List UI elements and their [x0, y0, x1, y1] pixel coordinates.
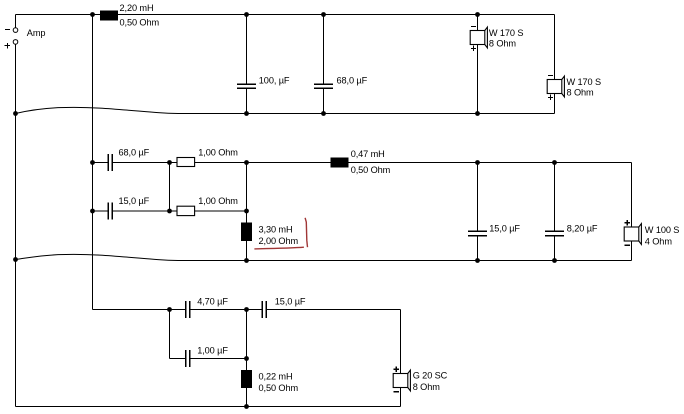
svg-text:4,70 µF: 4,70 µF	[197, 297, 228, 307]
red annotation underline	[254, 247, 304, 249]
wire leg to C9	[170, 358, 186, 360]
wire node to C8	[247, 309, 263, 311]
node junction top rail x=246	[244, 12, 249, 17]
node junction x=92 row2	[90, 209, 95, 214]
node junction mid bottom x=554	[552, 258, 557, 263]
wire top rail from amp to top-right corner	[16, 14, 555, 16]
wire C5 lower stub	[477, 236, 479, 261]
label L3 value	[259, 224, 293, 234]
svg-text:8 Ohm: 8 Ohm	[413, 382, 441, 392]
wire speaker LS3 upper lead	[631, 163, 633, 228]
amp plus sign	[5, 43, 10, 48]
label LS4 name	[413, 371, 448, 381]
node junction woofer rail x=477	[475, 111, 480, 116]
inductor L2 0.47mH body	[331, 158, 349, 168]
capacitor C7 4.7uF plates	[186, 301, 190, 318]
label LS2 name	[567, 77, 602, 87]
svg-text:15,0 µF: 15,0 µF	[119, 196, 150, 206]
wire C2 lower stub	[323, 88, 325, 113]
node junction x=246 mid bottom rail	[244, 258, 249, 263]
inductor L3 3.30mH body	[241, 223, 252, 242]
wire C1 upper stub	[246, 15, 248, 85]
wire row1 node to R1	[170, 162, 178, 164]
capacitor C8 15uF plates	[262, 301, 266, 318]
wire amp plus lead down left side	[15, 44, 17, 406]
label C5 value	[489, 223, 520, 233]
svg-text:Amp: Amp	[27, 28, 46, 38]
wire L3 upper lead	[246, 211, 248, 223]
svg-text:15,0 µF: 15,0 µF	[275, 297, 306, 307]
svg-text:0,50 Ohm: 0,50 Ohm	[120, 17, 160, 27]
red annotation check stroke	[305, 218, 307, 247]
svg-text:100, µF: 100, µF	[259, 76, 290, 86]
label L2 resistance	[351, 165, 391, 175]
node junction x=246 row2	[244, 209, 249, 214]
wire speaker LS1 lower lead	[477, 45, 479, 114]
svg-text:4 Ohm: 4 Ohm	[645, 236, 673, 246]
node junction x=92 row1	[90, 160, 95, 165]
label LS1 name	[489, 28, 524, 38]
wire C8 to tweeter corner	[266, 309, 401, 311]
label C8 value	[275, 297, 306, 307]
svg-text:0,47 mH: 0,47 mH	[351, 149, 385, 159]
node junction top rail x=324	[321, 12, 326, 17]
wire midrange rail row1 to corner	[247, 162, 632, 164]
label L4 resistance	[259, 383, 299, 393]
svg-text:W 100 S: W 100 S	[645, 225, 680, 235]
svg-text:0,50 Ohm: 0,50 Ohm	[351, 165, 391, 175]
wire C6 upper stub	[554, 163, 556, 232]
amp label	[27, 28, 46, 38]
label LS3 name	[645, 225, 680, 235]
wire vertical x=246 to L4	[246, 310, 248, 371]
label L1 value	[120, 3, 154, 13]
label C9 value	[197, 345, 228, 355]
wire C5 upper stub	[477, 163, 479, 232]
wire row2 R2 to node	[195, 210, 247, 212]
label R1 value	[198, 147, 238, 157]
wire curvy return lower (amp plus to midrange bottom rail)	[16, 254, 247, 260]
wire speaker LS2 upper lead	[554, 15, 556, 80]
amp terminal plus circle	[13, 40, 18, 45]
svg-text:W 170 S: W 170 S	[567, 77, 602, 87]
speaker LS1 W170S	[470, 27, 487, 52]
wire tweeter branch from bus	[93, 309, 186, 311]
capacitor C5 15uF plates	[468, 231, 487, 235]
wire woofer return rail	[247, 113, 555, 115]
svg-text:8,20 µF: 8,20 µF	[567, 223, 598, 233]
node junction woofer rail x=324	[321, 111, 326, 116]
inductor L4 0.22mH body	[241, 370, 252, 388]
wire bottom rail	[16, 406, 401, 408]
svg-text:G 20 SC: G 20 SC	[413, 371, 448, 381]
node junction x=169 row1	[167, 160, 172, 165]
capacitor C3 68uF plates	[108, 154, 112, 171]
label LS3 impedance	[645, 236, 673, 246]
svg-text:8 Ohm: 8 Ohm	[489, 38, 517, 48]
svg-text:68,0 µF: 68,0 µF	[119, 147, 150, 157]
label LS1 impedance	[489, 38, 517, 48]
wire curvy return upper (amp plus to woofer shunt bottom)	[16, 107, 247, 113]
wire parallel leg down x=169	[169, 310, 171, 359]
wire L4 lower lead	[246, 388, 248, 407]
capacitor C6 8.2uF plates	[545, 231, 564, 235]
label C4 value	[119, 196, 150, 206]
label L4 value	[259, 371, 293, 381]
label C2 value	[337, 76, 368, 86]
node junction x=246 lower cap branch	[244, 356, 249, 361]
svg-text:8 Ohm: 8 Ohm	[567, 87, 595, 97]
wire amp minus lead	[15, 15, 17, 28]
wire row1 C3 to node	[112, 162, 169, 164]
label LS4 impedance	[413, 382, 441, 392]
capacitor C4 15uF plates	[108, 203, 112, 220]
label C7 value	[197, 297, 228, 307]
node junction top rail x=92	[90, 12, 95, 17]
node junction x=169 row2	[167, 209, 172, 214]
wire speaker LS3 lower lead	[631, 241, 633, 261]
wire tweeter LS4 lower lead	[400, 388, 402, 407]
wire row2 node to R2	[170, 210, 178, 212]
node junction mid rail x=477	[475, 160, 480, 165]
wire row1 R1 to node	[195, 162, 247, 164]
wire C9 to node	[190, 358, 247, 360]
label L2 value	[351, 149, 385, 159]
speaker LS3 W100S	[624, 220, 641, 245]
node junction on amp lead at curve start lower	[13, 257, 18, 262]
resistor R2 body	[177, 206, 195, 215]
wire row2 from bus to C4	[93, 210, 109, 212]
node junction on amp lead at curve start upper	[13, 111, 18, 116]
wire tweeter LS4 upper lead	[400, 310, 402, 374]
svg-text:1,00 Ohm: 1,00 Ohm	[198, 196, 238, 206]
svg-text:2,00 Ohm: 2,00 Ohm	[259, 236, 299, 246]
node junction woofer rail x=246	[244, 111, 249, 116]
wire mid bottom rail	[247, 260, 632, 262]
svg-text:0,22 mH: 0,22 mH	[259, 371, 293, 381]
wire vertical link x=246 row1-row2	[246, 163, 248, 212]
speaker LS4 G20SC	[393, 367, 410, 392]
label C3 value	[119, 147, 150, 157]
label L1 resistance	[120, 17, 160, 27]
label C1 value	[259, 76, 290, 86]
node junction top rail x=477	[475, 12, 480, 17]
svg-text:1,00 Ohm: 1,00 Ohm	[198, 147, 238, 157]
wire row2 C4 to node	[112, 210, 169, 212]
wire speaker LS2 lower lead	[554, 94, 556, 114]
amp minus sign	[5, 29, 10, 31]
svg-text:2,20 mH: 2,20 mH	[120, 3, 154, 13]
resistor R1 body	[177, 158, 195, 167]
svg-text:W 170 S: W 170 S	[489, 28, 524, 38]
capacitor C1 100uF plates	[237, 84, 256, 88]
amp terminal minus circle	[13, 28, 18, 33]
wire row1 from bus to C3	[93, 162, 109, 164]
label C6 value	[567, 223, 598, 233]
node junction mid bottom x=477	[475, 258, 480, 263]
wire vertical link x=169 rows	[169, 163, 171, 212]
svg-text:0,50 Ohm: 0,50 Ohm	[259, 383, 299, 393]
node junction x=246 tweeter branch	[244, 307, 249, 312]
wire vertical bus x=92 from top rail to tweeter branch	[92, 15, 94, 310]
svg-text:1,00 µF: 1,00 µF	[197, 345, 228, 355]
capacitor C2 68uF plates	[314, 84, 333, 88]
node junction x=246 bottom rail	[244, 404, 249, 409]
node junction mid rail x=554	[552, 160, 557, 165]
node junction x=169 tweeter branch	[167, 307, 172, 312]
label R2 value	[198, 196, 238, 206]
svg-text:3,30 mH: 3,30 mH	[259, 224, 293, 234]
wire C7 to node	[190, 309, 247, 311]
wire C6 lower stub	[554, 236, 556, 261]
speaker LS2 W170S	[547, 76, 564, 101]
svg-text:68,0 µF: 68,0 µF	[337, 76, 368, 86]
wire L3 lower lead	[246, 241, 248, 261]
label L3 resistance	[259, 236, 299, 246]
label LS2 impedance	[567, 87, 595, 97]
wire C1 lower stub	[246, 88, 248, 113]
capacitor C9 1uF plates	[186, 350, 190, 367]
node junction x=246 row1	[244, 160, 249, 165]
svg-text:15,0 µF: 15,0 µF	[489, 223, 520, 233]
wire C2 upper stub	[323, 15, 325, 85]
wire speaker LS1 upper lead	[477, 15, 479, 31]
inductor L1 2.20mH body on top rail	[100, 11, 118, 21]
